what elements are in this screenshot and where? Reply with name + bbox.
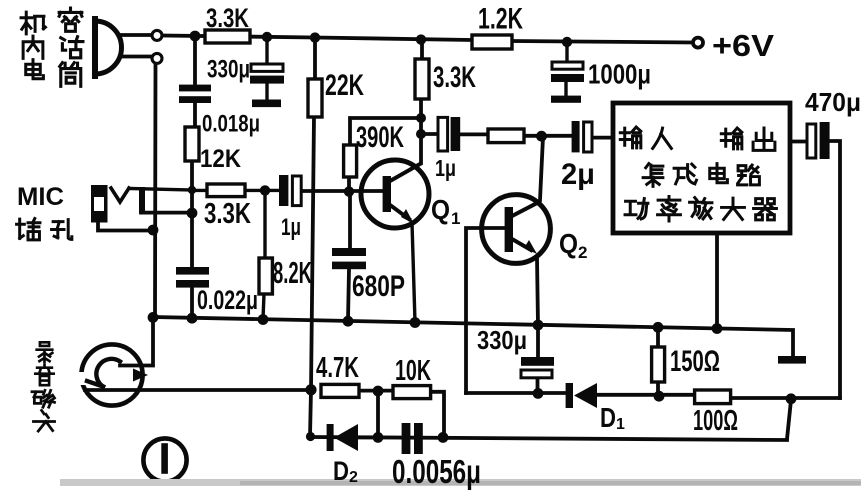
wire: 22K chain down through to 4.7K node and bottom rail (310, 41, 315, 437)
ground: right side (near 470u drop) (778, 356, 806, 364)
wire: Q2 base loop to lower left (466, 228, 505, 393)
ground: below 330u (252, 100, 281, 108)
label: 0.022u (197, 285, 258, 315)
svg-text:Q: Q (431, 194, 450, 225)
capacitor 0.022u (plates) (176, 267, 209, 288)
resistor 3.3K (top left) (205, 30, 250, 43)
node: jack tip node on bias chain (187, 208, 198, 219)
label: 12K (200, 145, 241, 173)
svg-text:4.7K: 4.7K (316, 352, 359, 384)
capacitor 330u (top, minus plate) (250, 76, 284, 100)
label: 3.3K (top left resistor) (206, 3, 249, 33)
wire: 390K feedback top link (349, 118, 419, 190)
label: D2 (333, 456, 358, 486)
label: 1.2K (478, 3, 523, 36)
wire: recording head lower lead (85, 388, 311, 392)
MIC jack body (91, 185, 108, 223)
capacitor 2u (minus bar) (572, 121, 580, 152)
resistor 3.3K (mic input) (192, 184, 279, 197)
recording head symbol (75, 344, 148, 405)
svg-text:1: 1 (616, 416, 625, 433)
svg-text:3.3K: 3.3K (206, 3, 249, 33)
svg-text:D: D (600, 402, 616, 433)
wire: interstage link 1u - resistor - 2u (421, 134, 613, 138)
wire: mid junction drop to bottom rail (376, 391, 380, 437)
label: Q2 (559, 228, 587, 262)
svg-text:D: D (333, 456, 349, 486)
scan artifact bar at page bottom (60, 479, 861, 486)
svg-text:Q: Q (559, 228, 578, 259)
label: 330u (Q2 emitter cap) (477, 325, 527, 355)
ground: below 1000u (551, 96, 581, 103)
label: 390K (356, 121, 404, 154)
svg-text:1μ: 1μ (435, 155, 456, 181)
node: recording-head lower junction (305, 384, 316, 395)
resistor 10K (393, 386, 431, 399)
node: D1 / 150 ohm junction (654, 391, 665, 402)
label: 470u (805, 87, 861, 117)
wire: 150 ohm leads (656, 329, 660, 395)
svg-text:150Ω: 150Ω (670, 345, 720, 378)
svg-text:10K: 10K (395, 355, 431, 387)
label: 4.7K (316, 352, 359, 384)
svg-text:0.022μ: 0.022μ (197, 285, 258, 315)
diode D1 (566, 383, 597, 408)
label: hanzi - output (shu chu) (721, 128, 775, 150)
resistor 4.7K (321, 384, 359, 397)
label: 3.3K (collector resistor) (433, 61, 476, 94)
label: 8.2K (273, 255, 312, 290)
node: 3.3K/1u/8.2K junction (260, 185, 270, 195)
node: bus junction x153 (148, 312, 159, 323)
capacitor 0.0056u (plates) (402, 423, 423, 454)
svg-text:390K: 390K (356, 121, 404, 154)
IC power amplifier box (613, 103, 790, 233)
resistor 12K (185, 127, 199, 161)
svg-text:330μ: 330μ (477, 325, 527, 355)
svg-text:330μ: 330μ (207, 56, 250, 84)
node: 100 ohm / output junction (786, 393, 797, 404)
wire: mic lower terminal down to signal bus (122, 57, 156, 318)
label: 0.018u (202, 111, 260, 138)
node: junction feeding 22K (310, 32, 320, 42)
resistor 22K (308, 79, 322, 117)
capacitor 1000u (minus plate) (551, 74, 584, 96)
wire: mic bias branch down (0.018u / 12K chain) (192, 39, 195, 318)
wire: feedback drop from output node to bottom rail (787, 400, 791, 439)
MIC jack tip contact (111, 188, 192, 202)
label: 22K (325, 69, 364, 102)
wire: MIC jack tip lead (141, 190, 187, 213)
transistor Q2 (482, 195, 551, 264)
wire: collector chain of Q1 (3.3K down to Q1) (421, 42, 422, 163)
wire: long signal/ground bus (middle horizontal) (154, 317, 793, 356)
node: junction feeding 3.3K collector resistor (416, 34, 426, 44)
transistor Q1 (361, 160, 429, 322)
node: Q2 collector junction (536, 131, 547, 142)
resistor 100 ohm (695, 390, 731, 404)
wire: MIC jack sleeve lead (98, 222, 152, 231)
capacitor 470u (minus bar) (820, 122, 830, 159)
label: 3.3K (mic input resistor) (204, 198, 251, 230)
wire: recording head upper lead (120, 318, 153, 366)
label: hanzi - internal condenser microphone (two columns) (21, 8, 83, 86)
node: junction feeding 1000u (562, 37, 572, 47)
wire: +6V top supply rail (122, 35, 692, 43)
resistor 3.3K (Q1 collector) (415, 59, 429, 99)
capacitor 470u (plus plate) (807, 124, 816, 158)
node: bottom rail left corner (306, 432, 315, 441)
node: mid junction on bottom rail (373, 432, 384, 443)
resistor 390K (344, 145, 357, 177)
svg-text:3.3K: 3.3K (204, 198, 251, 230)
svg-text:680P: 680P (352, 270, 405, 303)
svg-text:22K: 22K (325, 69, 364, 102)
terminal: +6V open circle (693, 38, 703, 48)
capacitor 0.018u (plates) (179, 85, 211, 103)
label: Q1 (431, 194, 460, 228)
svg-text:2μ: 2μ (561, 158, 595, 191)
wire: bottom feedback rail (310, 437, 787, 440)
wire: IC output to 470u (790, 141, 840, 398)
node: Q1 base node (344, 186, 354, 196)
capacitor 2u (plus plate) (584, 122, 592, 152)
capacitor 680P (plates) (332, 248, 366, 269)
node: bus junction x192 (187, 313, 198, 324)
capacitor 1u (Q1 output coupling, minus bar) (451, 117, 461, 151)
label: 100 ohm (693, 405, 738, 437)
svg-text:100Ω: 100Ω (693, 405, 738, 437)
capacitor 1u (Q1 output coupling, plus plate) (438, 117, 448, 151)
capacitor 330u (top, electrolytic plus plate) (251, 41, 283, 71)
svg-text:1: 1 (451, 209, 460, 228)
wire: Q2 collector riser (540, 137, 543, 200)
node: bus junction x415 (Q1 emitter) (410, 317, 421, 328)
wire: Q1 base wire from 1u coupling cap (301, 189, 383, 193)
svg-text:1μ: 1μ (281, 214, 301, 241)
capacitor 330u (Q2 emitter, minus plate) (521, 357, 554, 366)
wire: IC ground stub (715, 233, 719, 327)
diode D2 (327, 424, 373, 451)
label: hanzi - power amplifier (gong lv fang da qi) (625, 197, 776, 221)
wire: 680P branch from Q1 base down to bus (348, 196, 350, 320)
node: bus junction x348 (680P) (343, 316, 354, 327)
node: bus junction x263 (8.2K) (258, 314, 269, 325)
resistor 150 ohm (652, 347, 665, 382)
label: 150 ohm (670, 345, 720, 378)
node: mic top terminal junction (190, 31, 201, 42)
node: coupling junction to 1u (416, 129, 426, 139)
svg-text:1000μ: 1000μ (588, 59, 651, 90)
resistor 8.2K (259, 196, 272, 319)
node: bus junction x717 (IC ground stub) (712, 323, 723, 334)
figure number circle 1 (143, 438, 186, 481)
svg-text:12K: 12K (200, 145, 241, 173)
terminal: mic top pin circle (152, 30, 162, 40)
node: 390K feed junction (416, 113, 426, 123)
wire: diode D1 row (466, 393, 840, 398)
label: hanzi - input (shu ru) (620, 127, 671, 148)
node: junction after 3.3K top resistor (262, 32, 272, 42)
node: 4.7K-10K mid junction (373, 386, 384, 397)
label: 330u (top electrolytic) (207, 56, 250, 84)
node: bus junction x658 (150 ohm) (653, 322, 664, 333)
label: D1 (600, 402, 625, 433)
condenser microphone symbol (95, 19, 122, 76)
node: 3.3K input resistor tap (188, 186, 196, 194)
svg-text:2: 2 (349, 469, 358, 486)
node: 10K drop on bottom rail (438, 432, 449, 443)
capacitor 1u (input coupling, plus plate) (292, 176, 301, 206)
svg-text:2: 2 (578, 243, 587, 262)
label: 680P (352, 270, 405, 303)
terminal: mic lower pin circle (152, 53, 162, 63)
label: MIC (17, 183, 64, 211)
wire: Q2 emitter drop to bus and 330u (537, 258, 538, 394)
node: jack sleeve junction on mic bus (148, 225, 159, 236)
label: +6V (712, 28, 774, 63)
svg-text:1.2K: 1.2K (478, 3, 523, 36)
node: bus junction x538 (Q2 emitter) (533, 320, 544, 331)
label: 2u (561, 158, 595, 191)
label: hanzi - MIC jack (cha kong) (17, 219, 72, 240)
label: hanzi - recording head (vertical) (32, 342, 55, 431)
capacitor 1000u (plus plate) (552, 44, 583, 69)
svg-text:0.018μ: 0.018μ (202, 111, 260, 138)
svg-text:3.3K: 3.3K (433, 61, 476, 94)
svg-text:0.0056μ: 0.0056μ (392, 453, 481, 490)
label: 1u (Q1 output coupling) (435, 155, 456, 181)
capacitor 330u (Q2 emitter, plus plate) (521, 370, 552, 378)
label: hanzi - integrated circuit (ji cheng dian lu) (643, 164, 759, 187)
svg-text:+6V: +6V (712, 28, 774, 63)
label: 0.0056u (392, 453, 481, 490)
wire: 4.7K / 10K row (359, 391, 444, 436)
capacitor 1u (input coupling, minus bar) (279, 175, 288, 206)
svg-text:470μ: 470μ (805, 87, 861, 117)
label: 10K (395, 355, 431, 387)
resistor 1.2K (472, 35, 512, 49)
label: 1000u (588, 59, 651, 90)
svg-text:MIC: MIC (17, 183, 64, 211)
label: 1u (input coupling) (281, 214, 301, 241)
svg-text:8.2K: 8.2K (273, 255, 312, 290)
node: 330u / D1 junction (533, 388, 544, 399)
resistor (unlabeled interstage) (488, 129, 524, 143)
